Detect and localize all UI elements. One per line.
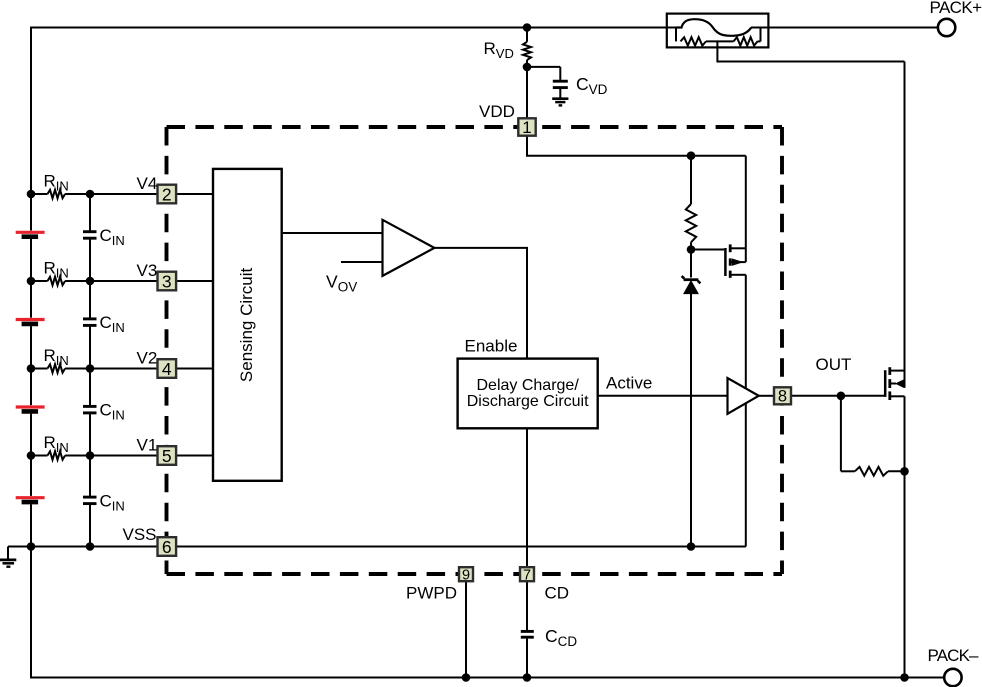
svg-text:V1: V1	[137, 435, 158, 454]
svg-text:V4: V4	[137, 174, 158, 193]
svg-text:CIN: CIN	[100, 401, 125, 423]
svg-text:Sensing Circuit: Sensing Circuit	[237, 267, 256, 382]
svg-text:CCD: CCD	[545, 626, 577, 649]
svg-text:V2: V2	[137, 348, 158, 367]
svg-text:CIN: CIN	[100, 226, 125, 248]
svg-text:7: 7	[523, 567, 531, 583]
svg-text:2: 2	[162, 184, 172, 204]
svg-text:OUT: OUT	[816, 355, 852, 374]
svg-text:VOV: VOV	[326, 271, 357, 294]
svg-text:Discharge Circuit: Discharge Circuit	[467, 393, 589, 410]
svg-text:RIN: RIN	[44, 346, 69, 368]
svg-text:RIN: RIN	[44, 172, 69, 194]
svg-text:VDD: VDD	[479, 102, 515, 121]
svg-text:VSS: VSS	[123, 525, 157, 544]
svg-text:PACK+: PACK+	[930, 0, 982, 17]
svg-text:CIN: CIN	[100, 313, 125, 335]
svg-text:6: 6	[162, 537, 172, 557]
svg-text:PWPD: PWPD	[406, 583, 457, 602]
svg-text:CD: CD	[545, 583, 570, 602]
svg-text:RIN: RIN	[44, 259, 69, 281]
svg-text:PACK–: PACK–	[928, 646, 980, 665]
svg-text:3: 3	[162, 271, 172, 291]
svg-text:4: 4	[162, 359, 172, 379]
svg-text:1: 1	[522, 118, 531, 137]
svg-text:9: 9	[462, 567, 470, 583]
svg-text:Delay Charge/: Delay Charge/	[477, 377, 580, 394]
svg-text:Enable: Enable	[465, 337, 518, 356]
svg-text:RIN: RIN	[44, 433, 69, 455]
svg-text:8: 8	[778, 388, 787, 406]
svg-text:V3: V3	[137, 261, 158, 280]
svg-text:Active: Active	[606, 374, 652, 393]
svg-text:CVD: CVD	[576, 74, 608, 97]
svg-text:5: 5	[162, 446, 172, 466]
svg-text:RVD: RVD	[484, 39, 514, 61]
svg-text:CIN: CIN	[100, 491, 125, 513]
